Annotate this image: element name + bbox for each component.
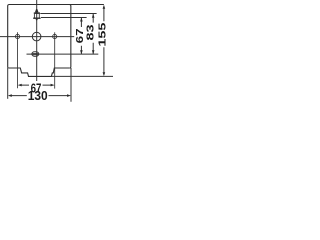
stud body (34, 14, 39, 18)
terminal oval inner lines (32, 53, 39, 55)
extension line from stud top flange (40, 13, 96, 15)
body outline right edge (70, 5, 71, 69)
arrow up 155 right (103, 5, 106, 9)
arrow left 130 bottom (8, 94, 12, 97)
vertical centerline (36, 0, 38, 81)
stud cone (35, 9, 39, 12)
extension line from stud lower flange (41, 16, 87, 18)
left hole extension line (17, 32, 19, 88)
arrow right 130 bottom (67, 94, 71, 97)
lowest edge extension line (51, 75, 113, 77)
svg-text:130: 130 (28, 88, 48, 103)
arrow left 67 bottom (18, 84, 22, 87)
terminal oval (32, 51, 39, 56)
svg-text:83: 83 (84, 24, 96, 40)
stud lower wedge (35, 19, 38, 21)
dim line 155 right (103, 8, 105, 74)
right hole extension line (54, 32, 56, 88)
arrow up 67 right (80, 18, 83, 22)
arrow down 155 right (103, 72, 106, 76)
body outline left edge (8, 5, 9, 69)
arrow down 83 right (92, 50, 95, 54)
bottom edge with steps (9, 68, 70, 76)
dim line 67 bottom (21, 84, 51, 86)
right edge extension line (70, 68, 72, 102)
svg-text:155: 155 (97, 22, 109, 46)
center hole circle (32, 32, 41, 41)
top plate edge / extension to 155 dim (9, 4, 104, 6)
arrow down 67 right (80, 50, 83, 54)
arrow right 67 bottom (51, 84, 55, 87)
left mounting hole (15, 34, 19, 38)
dim line 130 bottom (11, 95, 68, 97)
arrow up 83 right (92, 14, 95, 18)
dim line 67 right (80, 18, 82, 54)
stud lower flange (33, 18, 40, 19)
stud top flange (34, 12, 40, 14)
dim line 83 right (92, 14, 94, 54)
horizontal centerline (0, 36, 74, 38)
right mounting hole (53, 34, 57, 38)
left edge extension line (7, 68, 9, 99)
socket line (27, 53, 99, 55)
